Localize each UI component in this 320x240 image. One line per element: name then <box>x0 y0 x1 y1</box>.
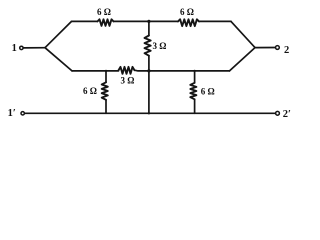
wire node A up-diagonal to top rail <box>45 21 72 47</box>
junction dot left vertical top <box>105 70 107 72</box>
wire middle rail right segment <box>149 70 230 72</box>
terminal 1 circle <box>20 46 23 49</box>
wire top rail middle segment <box>114 20 179 22</box>
resistor R 3ohm horizontal <box>119 67 135 74</box>
wire bottom rail <box>25 112 275 114</box>
wire center vertical upper <box>148 21 150 35</box>
terminal 2 circle <box>276 46 280 50</box>
wire node A down-diagonal to middle rail <box>45 48 72 71</box>
svg-text:6 Ω: 6 Ω <box>97 7 111 17</box>
wire left vertical upper <box>105 71 107 82</box>
wire node B to terminal 2 <box>255 47 275 49</box>
svg-text:3 Ω: 3 Ω <box>153 41 167 51</box>
resistor R 6ohm left vertical <box>102 82 108 100</box>
resistor R 6ohm top-left <box>98 19 114 26</box>
svg-text:6 Ω: 6 Ω <box>201 86 215 96</box>
resistor R 6ohm right vertical <box>190 83 196 100</box>
terminal 1prime circle <box>21 112 24 115</box>
svg-text:3 Ω: 3 Ω <box>121 75 135 85</box>
junction dot top center <box>147 20 150 23</box>
wire top rail right segment <box>199 20 231 22</box>
wire middle rail to center junction <box>135 69 149 72</box>
svg-text:1′: 1′ <box>8 108 16 119</box>
wire right vertical upper <box>194 71 196 83</box>
junction dot right vertical top <box>193 70 195 72</box>
wire top rail down-diagonal to node B <box>231 21 255 47</box>
wire middle rail left segment <box>72 70 119 72</box>
wire left vertical lower <box>105 100 107 114</box>
svg-text:1: 1 <box>12 43 17 54</box>
wire top rail left segment <box>72 20 98 22</box>
resistor R 6ohm top-right <box>178 19 199 26</box>
svg-text:6 Ω: 6 Ω <box>83 86 97 96</box>
wire right vertical lower <box>194 99 196 113</box>
svg-text:6 Ω: 6 Ω <box>180 7 194 17</box>
wire terminal1 to node A <box>24 47 45 49</box>
junction dot bottom center <box>148 112 150 114</box>
svg-text:2′: 2′ <box>283 109 291 120</box>
wire center vertical lower <box>148 56 150 114</box>
terminal 2prime circle <box>276 111 280 115</box>
svg-text:2: 2 <box>284 45 289 56</box>
resistor R 3ohm center vertical <box>145 36 151 56</box>
junction dot middle center <box>147 69 150 72</box>
wire middle rail up-diagonal to node B <box>230 48 256 71</box>
